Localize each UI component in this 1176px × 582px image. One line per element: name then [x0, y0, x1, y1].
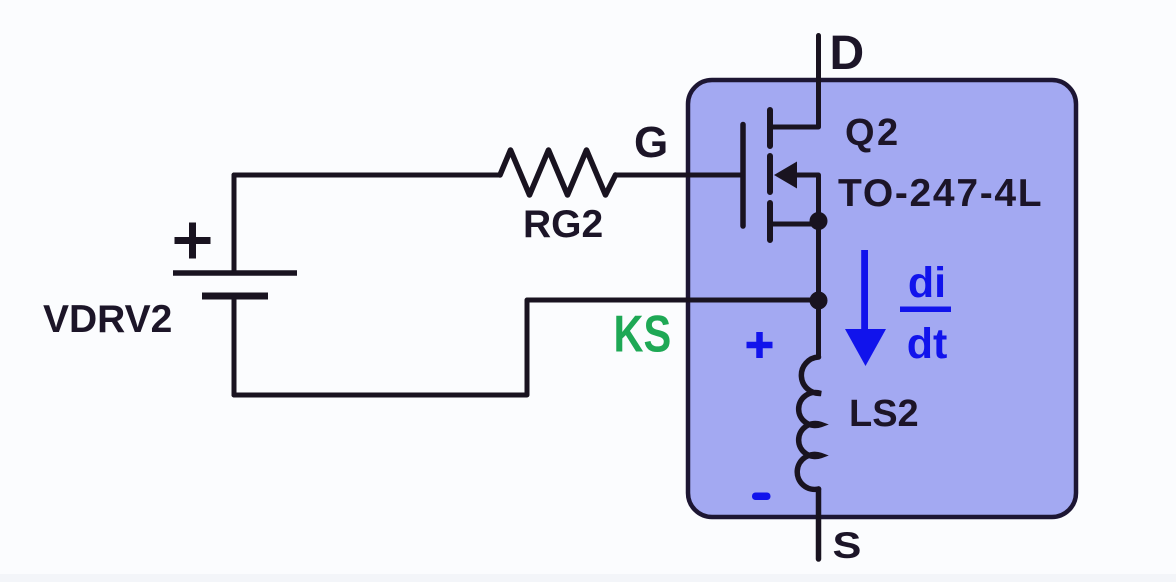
svg-text:RG2: RG2 — [523, 203, 603, 246]
transistor Q2 body connection — [795, 175, 819, 221]
battery VDRV2 bottom plate — [202, 293, 268, 300]
svg-text:KS: KS — [614, 304, 672, 363]
inductor minus polarity — [752, 493, 771, 501]
svg-text:TO-247-4L: TO-247-4L — [838, 172, 1043, 215]
battery VDRV2 top plate — [173, 270, 297, 276]
battery VDRV2 plus sign — [175, 223, 211, 259]
wire: source down to KS node — [816, 224, 821, 357]
wire: resistor to gate — [616, 173, 744, 178]
svg-text:LS2: LS2 — [849, 393, 919, 435]
MOSFET module package box TO-247-4L — [688, 80, 1076, 517]
junction dot source/body — [810, 212, 828, 230]
svg-text:di: di — [908, 259, 946, 307]
wire: inductor to source terminal S — [816, 489, 822, 559]
battery VDRV2 negative lead — [232, 296, 237, 395]
resistor RG2 — [500, 150, 616, 195]
bottom faint band — [0, 574, 1176, 582]
di/dt current arrow — [861, 250, 868, 332]
svg-text:G: G — [634, 118, 668, 167]
transistor Q2 source connection — [770, 222, 819, 227]
transistor Q2 channel segments — [767, 110, 773, 240]
wire: top wire from battery + to resistor — [234, 173, 500, 178]
terminal S label — [833, 525, 862, 566]
transistor Q2 drain connection — [770, 36, 819, 128]
wire: bottom return wire — [234, 300, 814, 395]
transistor Q2 gate bar — [740, 125, 746, 227]
junction dot KS node — [810, 292, 828, 310]
svg-text:S: S — [833, 525, 862, 566]
node KS label — [614, 304, 672, 363]
svg-text:dt: dt — [907, 320, 948, 368]
inductor plus polarity — [747, 332, 773, 358]
battery VDRV2 positive lead — [232, 175, 237, 273]
transistor Q2 body arrow — [774, 162, 797, 189]
svg-text:D: D — [830, 27, 865, 80]
svg-text:Q2: Q2 — [845, 112, 901, 154]
inductor LS2 coil — [797, 357, 821, 489]
svg-text:VDRV2: VDRV2 — [43, 298, 172, 341]
